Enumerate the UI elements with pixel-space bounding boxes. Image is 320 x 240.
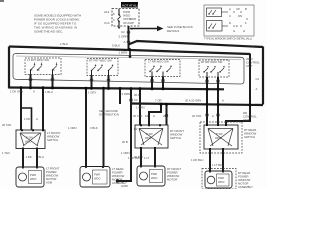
svg-text:WDO: WDO	[30, 177, 36, 181]
svg-text:ASM: ASM	[46, 181, 53, 185]
svg-text:UP: UP	[236, 7, 240, 11]
svg-text:1 LT BLU: 1 LT BLU	[212, 163, 224, 167]
svg-text:E: E	[236, 24, 238, 28]
svg-text:C: C	[113, 19, 115, 22]
svg-text:20: 20	[163, 114, 167, 118]
svg-text:RT RR WDO SW: RT RR WDO SW	[201, 60, 223, 64]
svg-text:A: A	[36, 117, 38, 121]
svg-text:DISTRIBUTION: DISTRIBUTION	[99, 113, 119, 117]
svg-text:PWR: PWR	[151, 172, 157, 176]
svg-text:20 B: 20 B	[122, 140, 128, 144]
svg-text:C2: C2	[134, 98, 138, 102]
svg-text:20 A 20 GRN: 20 A 20 GRN	[185, 99, 201, 103]
svg-text:7 OR: 7 OR	[155, 99, 162, 103]
svg-text:1 BLU: 1 BLU	[45, 90, 53, 94]
svg-text:SWITCH: SWITCH	[47, 138, 58, 142]
svg-text:1 BLK: 1 BLK	[60, 42, 68, 46]
svg-text:WDO: WDO	[151, 176, 157, 180]
svg-text:PWR: PWR	[30, 173, 36, 177]
svg-text:PWR: PWR	[218, 176, 224, 180]
svg-text:1 GRY: 1 GRY	[88, 91, 96, 95]
svg-text:PWR: PWR	[94, 173, 100, 177]
svg-text:UNIT: UNIT	[243, 118, 250, 122]
svg-text:A: A	[153, 114, 155, 118]
svg-text:A: A	[33, 90, 35, 94]
svg-text:WDO: WDO	[215, 136, 221, 140]
svg-text:A: A	[229, 7, 231, 11]
svg-text:1 ORN: 1 ORN	[136, 106, 145, 110]
svg-text:1 DK BLU: 1 DK BLU	[191, 158, 203, 162]
svg-text:ASSEMBLY: ASSEMBLY	[112, 181, 127, 185]
svg-text:20 TAN: 20 TAN	[2, 123, 11, 127]
svg-text:1 LT: 1 LT	[144, 156, 150, 160]
svg-text:WDO: WDO	[25, 140, 31, 144]
svg-text:20 TAN: 20 TAN	[133, 114, 142, 118]
svg-text:WDO: WDO	[218, 180, 224, 184]
svg-text:20 A: 20 A	[134, 93, 140, 97]
svg-text:A: A	[124, 40, 126, 44]
svg-text:1 BRN: 1 BRN	[119, 51, 128, 55]
svg-text:SWITCH: SWITCH	[170, 136, 181, 140]
svg-text:B: B	[245, 7, 247, 11]
svg-text:3 BLK: 3 BLK	[90, 126, 98, 130]
svg-text:UNIT: UNIT	[246, 64, 253, 68]
svg-text:LT RR WDO SW: LT RR WDO SW	[148, 60, 169, 64]
svg-text:B SW: B SW	[146, 132, 153, 136]
svg-text:3 ORN: 3 ORN	[122, 92, 131, 96]
svg-text:5 BLK: 5 BLK	[112, 44, 120, 48]
svg-text:LT FRT WDO SW: LT FRT WDO SW	[27, 58, 49, 62]
svg-text:DETAILS: DETAILS	[167, 29, 179, 33]
svg-text:MOTOR: MOTOR	[167, 178, 177, 182]
svg-text:B SW: B SW	[26, 136, 33, 140]
svg-text:1 TAN: 1 TAN	[2, 151, 10, 155]
svg-text:ASSEMBLY: ASSEMBLY	[238, 185, 253, 189]
svg-text:H: H	[243, 29, 245, 33]
svg-text:G: G	[233, 29, 235, 33]
svg-text:SOME THE AID SEC.: SOME THE AID SEC.	[34, 30, 63, 34]
svg-text:F: F	[245, 21, 247, 25]
svg-text:A: A	[256, 87, 258, 91]
svg-text:WDO: WDO	[94, 177, 100, 181]
svg-text:SWITCH: SWITCH	[244, 135, 255, 139]
svg-text:HOT AT ALL: HOT AT ALL	[122, 3, 139, 7]
svg-text:C14: C14	[104, 21, 110, 25]
svg-text:A14: A14	[104, 10, 110, 14]
svg-text:RT FRT WDO SW: RT FRT WDO SW	[89, 59, 112, 63]
svg-text:1 ORN: 1 ORN	[68, 126, 77, 130]
svg-text:1 DK: 1 DK	[26, 155, 32, 159]
svg-text:1 DK GRN: 1 DK GRN	[10, 90, 23, 94]
svg-text:30 AMP: 30 AMP	[123, 21, 134, 25]
svg-text:B SW: B SW	[216, 132, 223, 136]
svg-text:A: A	[222, 99, 224, 103]
svg-text:A: A	[212, 114, 214, 118]
svg-text:C: C	[229, 14, 231, 18]
svg-text:D: D	[229, 21, 231, 25]
svg-text:C2: C2	[256, 77, 260, 81]
svg-text:18: 18	[145, 114, 149, 118]
svg-text:20 TAN: 20 TAN	[192, 114, 201, 118]
svg-text:TYPICAL WINDOW SWITCH DETAIL (: TYPICAL WINDOW SWITCH DETAIL (ALL)	[204, 37, 252, 41]
svg-text:1 DK: 1 DK	[24, 117, 30, 121]
svg-text:BLU: BLU	[39, 155, 44, 159]
svg-text:2 ORN: 2 ORN	[119, 35, 128, 39]
svg-text:C2: C2	[121, 30, 125, 34]
svg-text:DN: DN	[238, 14, 242, 18]
svg-text:WDO: WDO	[145, 136, 151, 140]
svg-text:1 ORN: 1 ORN	[121, 151, 130, 155]
svg-text:1 DK BLU: 1 DK BLU	[128, 156, 140, 160]
